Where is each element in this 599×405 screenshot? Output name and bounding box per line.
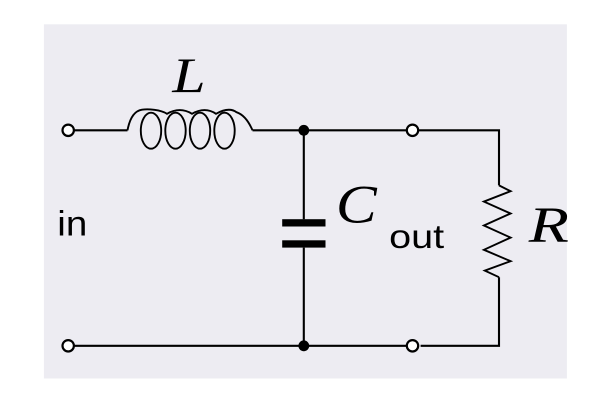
node: ground-side input terminal (bottom left) [62,340,73,351]
svg-text:L: L [171,47,205,102]
wire: resistor to bottom rail [421,277,499,346]
wire: input terminal to inductor [74,129,127,131]
inductor L [128,109,253,148]
wire: top junction to capacitor [303,130,305,219]
resistor R [484,185,511,277]
node: output terminal (bottom) [407,340,418,351]
capacitor C [282,219,325,247]
wire: bottom-left terminal to bottom junction [74,345,304,347]
svg-text:in: in [57,204,87,243]
wire: top junction to output terminal [304,129,407,131]
svg-text:C: C [336,176,378,235]
schematic background panel [44,24,567,378]
node: bottom junction dot [298,340,309,351]
svg-text:R: R [528,197,569,253]
node: input terminal (top left) [62,125,73,136]
node: output terminal (top) [407,125,418,136]
wire: inductor to top junction [253,129,304,131]
wire: capacitor to bottom junction [303,248,305,346]
wire: bottom junction to bottom output terminal [304,345,407,347]
wire: output terminal to right corner [419,130,499,185]
node: top junction dot [298,125,309,136]
svg-text:out: out [389,218,444,255]
